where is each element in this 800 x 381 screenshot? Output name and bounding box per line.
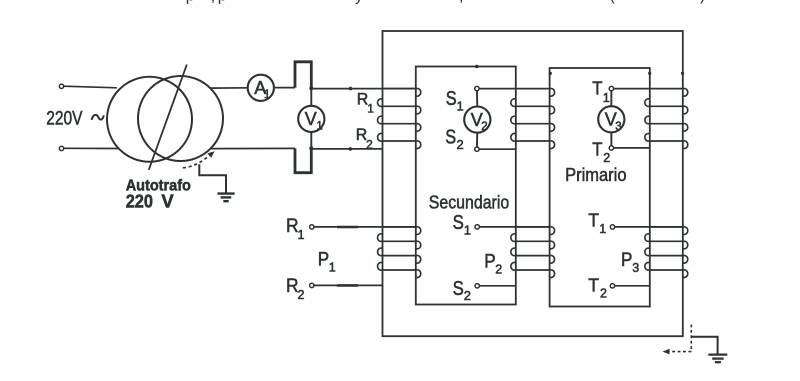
svg-text:,: , <box>459 0 463 5</box>
svg-text:p: p <box>218 0 227 5</box>
svg-text:V: V <box>305 109 317 129</box>
svg-text:3: 3 <box>615 121 621 133</box>
svg-text:,: , <box>211 0 215 5</box>
svg-text:1: 1 <box>367 102 374 116</box>
svg-text:1: 1 <box>329 261 336 275</box>
svg-text:S: S <box>445 127 456 149</box>
svg-text:Primario: Primario <box>565 164 626 185</box>
svg-text:Secundario: Secundario <box>429 191 509 212</box>
svg-text:1: 1 <box>264 89 270 101</box>
svg-text:T: T <box>588 274 599 295</box>
svg-text:1: 1 <box>599 222 606 236</box>
svg-text:3: 3 <box>632 261 639 275</box>
svg-text:S: S <box>446 88 457 110</box>
svg-text:1: 1 <box>298 228 305 242</box>
svg-text:1: 1 <box>316 120 322 132</box>
svg-text:220V: 220V <box>46 107 82 129</box>
svg-text:y: y <box>355 0 363 4</box>
svg-text:T: T <box>592 77 602 98</box>
svg-text:): ) <box>700 0 705 4</box>
svg-text:p: p <box>186 0 195 5</box>
svg-text:220: 220 <box>126 190 153 211</box>
svg-text:S: S <box>453 278 464 300</box>
svg-text:1: 1 <box>457 98 464 113</box>
svg-text:T: T <box>592 138 602 159</box>
svg-text:T: T <box>588 210 599 231</box>
svg-text:1: 1 <box>464 223 471 238</box>
svg-text:P: P <box>318 249 329 270</box>
svg-text:P: P <box>484 252 495 273</box>
svg-text:2: 2 <box>495 262 502 276</box>
svg-text:2: 2 <box>603 151 610 165</box>
svg-text:1: 1 <box>603 91 610 105</box>
svg-text:S: S <box>453 212 464 234</box>
svg-text:2: 2 <box>481 121 487 133</box>
svg-text:2: 2 <box>600 287 607 301</box>
svg-text:(: ( <box>610 0 616 4</box>
svg-text:2: 2 <box>366 137 373 151</box>
svg-text:2: 2 <box>457 137 464 152</box>
svg-text:2: 2 <box>464 288 471 303</box>
svg-text:2: 2 <box>298 288 305 302</box>
svg-text:P: P <box>621 250 632 271</box>
svg-text:V: V <box>161 190 174 211</box>
